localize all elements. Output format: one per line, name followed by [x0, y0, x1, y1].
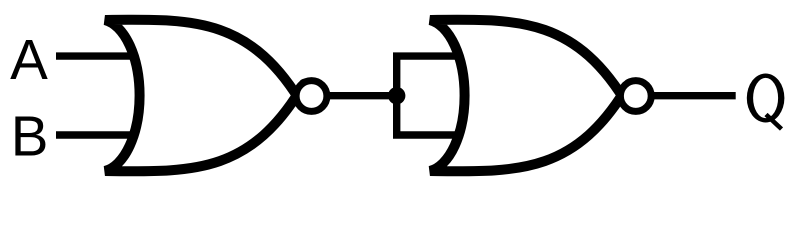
NOR gate U2 body [430, 20, 629, 172]
wire input A [56, 52, 136, 59]
NOR gate U1 body [105, 20, 304, 172]
label Q [747, 74, 785, 130]
wire junction vertical [393, 56, 400, 135]
NOR gate U2 output bubble [620, 81, 651, 112]
wire junction to U2 input bottom [393, 131, 462, 138]
wire U2 output to Q [652, 92, 736, 99]
wire U1 output to junction [324, 92, 399, 99]
wire junction to U2 input top [393, 52, 462, 59]
wire input B [56, 131, 136, 138]
svg-text:B: B [11, 105, 49, 168]
svg-text:A: A [10, 28, 48, 91]
NOR gate U1 output bubble [296, 81, 327, 112]
node junction dot [388, 87, 405, 104]
